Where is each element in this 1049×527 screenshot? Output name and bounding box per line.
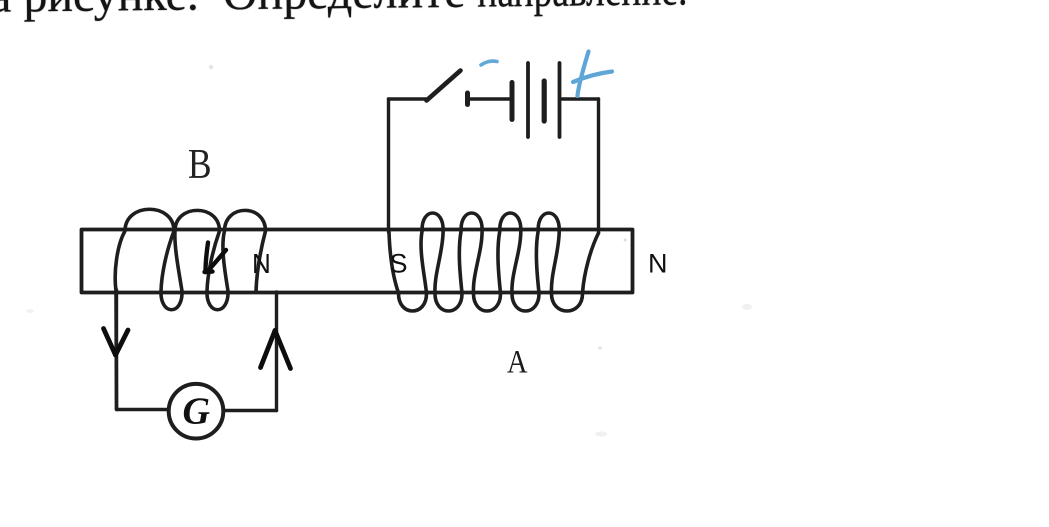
battery cell plate 2 (long) — [526, 63, 530, 137]
wire: stub to battery — [468, 97, 510, 100]
switch right contact stub — [465, 93, 470, 105]
cropped russian caption — [0, 0, 747, 24]
hand arrow ^ (right wire, up) — [261, 331, 291, 369]
blue minus sign — [481, 61, 497, 65]
battery cell plate 4 (long) — [558, 63, 562, 137]
svg-text:N: N — [252, 248, 271, 279]
wire: galvanometer left horizontal — [117, 408, 170, 411]
wire: battery to right vertical — [562, 97, 599, 100]
battery cell plate 3 (short) — [542, 81, 547, 121]
hand arrow in bar (down-left) — [205, 243, 227, 273]
switch blade — [427, 71, 461, 101]
wire: top left horizontal to switch — [389, 97, 428, 100]
wire: battery left vertical — [387, 99, 390, 232]
hand arrow V (left wire, down) — [104, 329, 129, 356]
svg-text:A: A — [507, 344, 527, 380]
wire: galvanometer right vertical — [275, 292, 278, 411]
svg-text:S: S — [390, 249, 408, 279]
galvanometer G circle — [169, 384, 224, 439]
svg-text:B: B — [188, 141, 212, 188]
svg-text:N: N — [648, 249, 668, 279]
wire: battery right vertical — [597, 99, 600, 233]
coil A (right, to battery) — [389, 213, 599, 311]
blue plus sign — [573, 52, 612, 97]
coil B (left, to galvanometer) — [115, 209, 265, 409]
faint scan smudges — [26, 65, 752, 437]
wire: galvanometer right horizontal — [223, 409, 277, 412]
battery cell plate 1 (short) — [510, 83, 515, 120]
svg-text:G: G — [183, 391, 211, 433]
iron core bar — [82, 230, 633, 293]
wire: galvanometer left vertical — [115, 290, 118, 410]
